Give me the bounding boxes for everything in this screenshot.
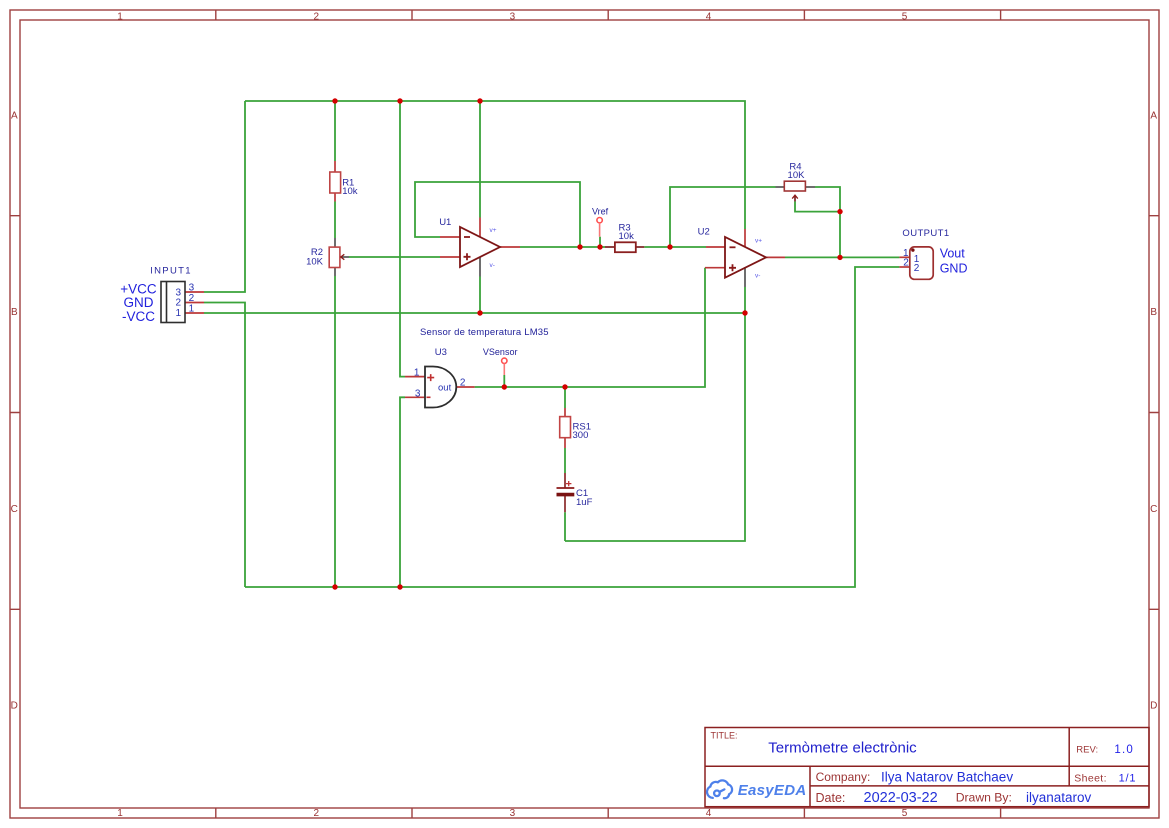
svg-text:3: 3 bbox=[510, 12, 516, 23]
svg-text:Termòmetre electrònic: Termòmetre electrònic bbox=[768, 739, 917, 756]
svg-text:1: 1 bbox=[414, 367, 420, 378]
pin R1 top bbox=[334, 161, 336, 172]
pin U2 output bbox=[766, 256, 785, 258]
PIN STUBS red bbox=[185, 161, 910, 448]
resistor R4 (pot) bbox=[784, 181, 805, 201]
wire top +VCC rail to U2 V+ bbox=[245, 101, 745, 229]
node bottom rail / R2 bbox=[332, 584, 337, 589]
dark red stubs R3 bbox=[605, 246, 644, 248]
svg-text:10k: 10k bbox=[619, 231, 635, 242]
node U1 out / feedback bbox=[577, 244, 582, 249]
node U1 V- / -VCC bbox=[477, 310, 482, 315]
node Vref bbox=[597, 244, 602, 249]
pin U2 minus bbox=[706, 246, 725, 248]
svg-text:1: 1 bbox=[189, 304, 195, 315]
svg-text:Sheet:: Sheet: bbox=[1074, 772, 1107, 784]
svg-text:4: 4 bbox=[706, 12, 712, 23]
svg-text:A: A bbox=[1150, 110, 1157, 121]
pin R3 right bbox=[636, 246, 645, 248]
pin R2 top bbox=[334, 238, 336, 247]
pin R4 right bbox=[805, 186, 815, 188]
pin OUTPUT1-2 bbox=[899, 266, 909, 268]
pin R2 wiper tail bbox=[341, 256, 350, 258]
svg-text:INPUT1: INPUT1 bbox=[150, 266, 192, 277]
svg-text:4: 4 bbox=[706, 808, 712, 819]
pin R4 left bbox=[776, 186, 785, 188]
svg-text:D: D bbox=[1150, 701, 1157, 712]
svg-text:Vref: Vref bbox=[592, 207, 609, 217]
svg-text:VSensor: VSensor bbox=[483, 347, 518, 357]
maroon stubs C1 bbox=[564, 473, 566, 512]
pin R2 bottom bbox=[334, 268, 336, 277]
wire C1 bottom bbox=[564, 512, 566, 541]
pin U3-3 bbox=[405, 396, 425, 398]
node R4 wiper bbox=[837, 209, 842, 214]
net flag Vref bbox=[597, 218, 602, 237]
wire +VCC from INPUT1 pin3 bbox=[204, 101, 245, 292]
svg-text:TITLE:: TITLE: bbox=[711, 731, 738, 741]
pin U3-1 bbox=[405, 376, 425, 378]
wire R4 feedback right bbox=[815, 187, 840, 257]
svg-text:1/1: 1/1 bbox=[1119, 772, 1137, 784]
svg-text:1: 1 bbox=[117, 808, 123, 819]
svg-text:out: out bbox=[438, 382, 452, 393]
svg-text:C: C bbox=[1150, 504, 1157, 515]
svg-text:OUTPUT1: OUTPUT1 bbox=[902, 228, 949, 239]
node top rail / U1 V+ bbox=[477, 98, 482, 103]
pin RS1 bottom bbox=[564, 438, 566, 448]
svg-text:1uF: 1uF bbox=[576, 497, 593, 508]
connector OUTPUT1 bbox=[910, 247, 933, 279]
svg-text:U3: U3 bbox=[435, 347, 447, 358]
wire Vref drop bbox=[599, 237, 601, 247]
pin INPUT1-1 bbox=[185, 312, 204, 314]
svg-text:Vout: Vout bbox=[940, 246, 966, 260]
wire -VCC line from INPUT1 pin1 bbox=[204, 312, 745, 314]
pin C1 top bbox=[564, 473, 566, 488]
pin U1 output bbox=[500, 246, 520, 248]
svg-text:2: 2 bbox=[314, 808, 320, 819]
pin numbers OUTPUT1 outside bbox=[903, 248, 909, 269]
svg-text:10K: 10K bbox=[788, 170, 806, 181]
pin U2 plus bbox=[705, 267, 725, 269]
wire U3 pin1 column bbox=[400, 101, 405, 377]
svg-text:ilyanatarov: ilyanatarov bbox=[1026, 790, 1092, 805]
PIN STUBS dark bbox=[335, 187, 815, 287]
wire R4 wiper link bbox=[795, 201, 840, 211]
wire R3 to U2 minus bbox=[644, 246, 706, 248]
wire R4 feedback left bbox=[670, 187, 776, 247]
node VSensor bbox=[502, 384, 507, 389]
node U2 out bbox=[837, 255, 842, 260]
pin numbers OUTPUT1 inside bbox=[914, 254, 920, 274]
svg-text:B: B bbox=[11, 307, 18, 318]
svg-text:2: 2 bbox=[903, 257, 909, 268]
resistor R3 bbox=[615, 242, 636, 252]
net flag VSensor bbox=[502, 358, 507, 375]
pin U1 V- bbox=[479, 257, 481, 277]
wire R2 bottom to rail bbox=[334, 276, 336, 587]
pin RS1 top bbox=[564, 408, 566, 417]
svg-text:GND: GND bbox=[940, 261, 968, 275]
wire VSensor drop bbox=[503, 375, 505, 387]
pin OUTPUT1-1 bbox=[899, 256, 909, 258]
wire R2 wiper to U1 plus bbox=[349, 256, 440, 258]
svg-text:U2: U2 bbox=[698, 227, 710, 238]
wire U2 V- down to C1 bottom bbox=[565, 287, 745, 541]
pin INPUT1-2 bbox=[185, 302, 204, 304]
pin U1 plus bbox=[440, 256, 460, 258]
svg-text:D: D bbox=[11, 701, 18, 712]
svg-text:v-: v- bbox=[755, 273, 760, 280]
svg-text:3: 3 bbox=[189, 283, 195, 294]
svg-text:5: 5 bbox=[902, 12, 908, 23]
wire U1 minus feedback loop bbox=[415, 182, 580, 247]
pin U1 minus bbox=[440, 236, 460, 238]
svg-text:1.0: 1.0 bbox=[1114, 744, 1134, 756]
pin C1 bottom bbox=[564, 496, 566, 512]
svg-text:GND: GND bbox=[124, 295, 154, 310]
wire RS1 top bbox=[564, 387, 566, 408]
pin R4 wiper tail bbox=[794, 196, 796, 202]
svg-text:B: B bbox=[1150, 307, 1157, 318]
svg-text:Date:: Date: bbox=[816, 791, 846, 805]
EasyEDA logo bbox=[707, 780, 732, 798]
svg-text:2: 2 bbox=[314, 12, 320, 23]
svg-text:1: 1 bbox=[176, 308, 182, 319]
node top rail / U3 bbox=[397, 98, 402, 103]
svg-text:1: 1 bbox=[117, 12, 123, 23]
pin numbers INPUT1 inside bbox=[176, 287, 182, 319]
pin R3 left bbox=[605, 246, 615, 248]
pin INPUT1-3 bbox=[185, 291, 204, 293]
pin U2 V- bbox=[744, 267, 746, 287]
svg-text:U1: U1 bbox=[439, 217, 451, 228]
sensor U3 bbox=[425, 367, 456, 408]
wire U1 output bbox=[520, 246, 605, 248]
pin U2 V+ bbox=[744, 229, 746, 247]
svg-text:10K: 10K bbox=[306, 256, 324, 267]
svg-text:10k: 10k bbox=[342, 186, 358, 197]
resistor RS1 bbox=[560, 417, 571, 438]
pin U3-2 out bbox=[456, 386, 474, 388]
pin numbers U3 bbox=[414, 367, 466, 399]
svg-text:Sensor de temperatura LM35: Sensor de temperatura LM35 bbox=[420, 327, 549, 338]
pin numbers INPUT1 outside bbox=[189, 283, 195, 315]
svg-text:REV:: REV: bbox=[1076, 745, 1098, 756]
wire sensor out to U2 plus bbox=[475, 268, 705, 387]
node bottom rail / U3-3 bbox=[397, 584, 402, 589]
svg-text:2022-03-22: 2022-03-22 bbox=[864, 790, 938, 806]
resistor R2 (pot) bbox=[329, 247, 344, 267]
wire U3 pin3 to bottom rail bbox=[400, 397, 405, 587]
resistor R1 bbox=[330, 172, 341, 193]
op-amp U1 bbox=[460, 227, 500, 267]
svg-text:Drawn By:: Drawn By: bbox=[956, 791, 1012, 805]
svg-text:v-: v- bbox=[490, 262, 495, 269]
wire U2 output to OUTPUT1 bbox=[785, 256, 899, 258]
svg-text:-VCC: -VCC bbox=[122, 309, 155, 324]
wire GND from INPUT1 pin2 to bottom rail bbox=[204, 303, 245, 588]
pin R1 bottom bbox=[334, 193, 336, 202]
svg-text:Company:: Company: bbox=[816, 770, 871, 784]
capacitor C1 bbox=[557, 481, 575, 495]
svg-text:EasyEDA: EasyEDA bbox=[738, 782, 807, 799]
svg-text:2: 2 bbox=[176, 298, 182, 309]
svg-text:5: 5 bbox=[902, 808, 908, 819]
wire bottom GND rail to OUTPUT1 pin2 bbox=[245, 267, 899, 587]
node RS1 bbox=[562, 384, 567, 389]
svg-text:300: 300 bbox=[573, 430, 589, 441]
svg-text:2: 2 bbox=[189, 293, 195, 304]
wire U1 V+ column bbox=[479, 101, 481, 218]
pin U1 V+ bbox=[479, 218, 481, 238]
svg-text:3: 3 bbox=[415, 388, 421, 399]
node R3 / U2 minus bbox=[667, 244, 672, 249]
op-amp U2 bbox=[725, 237, 766, 278]
svg-text:v+: v+ bbox=[490, 227, 497, 234]
svg-text:Ilya Natarov Batchaev: Ilya Natarov Batchaev bbox=[881, 769, 1013, 784]
svg-text:C: C bbox=[11, 504, 18, 515]
wire RS1 to C1 bbox=[564, 448, 566, 473]
svg-text:2: 2 bbox=[460, 378, 466, 389]
svg-text:2: 2 bbox=[914, 263, 920, 274]
wire R1 top bbox=[334, 101, 336, 161]
wire R1-R2 link bbox=[334, 202, 336, 239]
svg-text:v+: v+ bbox=[755, 237, 762, 244]
svg-text:3: 3 bbox=[510, 808, 516, 819]
node U2 V- / -VCC bbox=[742, 310, 747, 315]
svg-text:A: A bbox=[11, 110, 18, 121]
TITLE BLOCK bbox=[705, 728, 1149, 807]
wire U1 V- to -VCC bbox=[479, 277, 481, 314]
connector INPUT1 bbox=[161, 282, 185, 323]
node top rail / R1 bbox=[332, 98, 337, 103]
